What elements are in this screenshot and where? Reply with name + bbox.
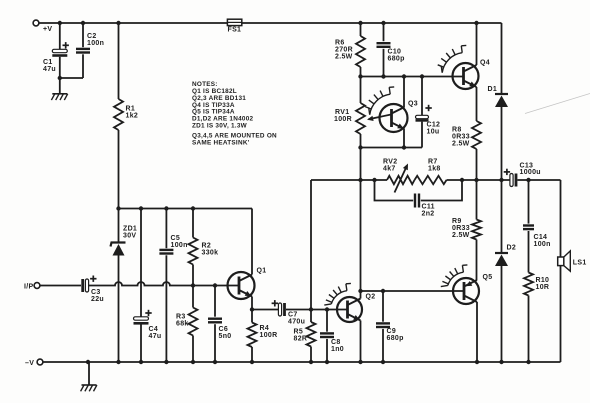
svg-text:2.5W: 2.5W bbox=[452, 141, 470, 148]
svg-text:1000u: 1000u bbox=[520, 169, 541, 176]
capacitor C12 10u bbox=[416, 77, 429, 148]
svg-text:C8: C8 bbox=[331, 339, 341, 346]
label FS1 bbox=[228, 27, 242, 34]
junction R8 bottom bbox=[474, 178, 478, 182]
transistor Q1 bbox=[228, 272, 255, 299]
resistor R4 100R bbox=[248, 310, 257, 363]
label Q1 bbox=[257, 268, 267, 275]
resistor R3 68k bbox=[189, 286, 198, 363]
resistor R2 330k bbox=[189, 209, 198, 286]
svg-text:100n: 100n bbox=[87, 40, 104, 47]
plus C13 bbox=[504, 169, 510, 175]
ground (bottom) bbox=[81, 362, 97, 391]
label C7 bbox=[288, 312, 305, 326]
junction Q3 emitter bbox=[402, 145, 406, 149]
svg-text:C14: C14 bbox=[534, 234, 548, 241]
junction Q4 collector top bbox=[474, 21, 478, 25]
heatsink mark Q3 bbox=[365, 87, 394, 115]
junction C4 bottom bbox=[139, 360, 143, 364]
junction C9 bottom bbox=[381, 360, 385, 364]
svg-text:1n0: 1n0 bbox=[331, 346, 344, 353]
capacitor C9 680p bbox=[376, 291, 390, 362]
svg-text:2.5W: 2.5W bbox=[452, 232, 470, 239]
junction R2 top bbox=[191, 206, 195, 210]
svg-text:22u: 22u bbox=[91, 296, 104, 303]
wiper arrow RV2 bbox=[395, 164, 409, 193]
wire emitter rail bbox=[361, 147, 423, 149]
resistor R5 82R bbox=[307, 310, 316, 363]
junction C10 bottom bbox=[381, 74, 385, 78]
wire Q5 collector bbox=[476, 302, 478, 362]
svg-text:1k8: 1k8 bbox=[428, 166, 441, 173]
junction C5 top bbox=[164, 206, 168, 210]
junction Q2 collector bbox=[358, 289, 362, 293]
svg-text:R9: R9 bbox=[452, 218, 462, 225]
svg-text:Q4: Q4 bbox=[480, 60, 490, 67]
label C14 bbox=[534, 234, 551, 248]
junction ground bbox=[86, 360, 90, 364]
label C12 bbox=[427, 122, 441, 136]
junction R7 right bbox=[460, 178, 464, 182]
resistor R8 0R33 2.5W bbox=[472, 121, 481, 180]
label R1 bbox=[126, 106, 139, 120]
junction C10 top bbox=[381, 21, 385, 25]
label Q4 bbox=[480, 60, 490, 67]
wire Q3 emitter bbox=[403, 129, 405, 148]
junction Q1 emitter bbox=[250, 307, 254, 311]
svg-text:100R: 100R bbox=[334, 116, 352, 123]
svg-text:270R: 270R bbox=[335, 47, 353, 54]
transistor Q5 bbox=[453, 278, 479, 304]
junction R4 bottom bbox=[250, 360, 254, 364]
label R3 bbox=[176, 314, 189, 328]
diode D1 bbox=[495, 94, 508, 180]
note text block bbox=[192, 81, 277, 147]
junction R6 top bbox=[358, 21, 362, 25]
wire output rail bbox=[311, 179, 510, 181]
wire Q2 collector to Q5 base bbox=[361, 290, 465, 292]
svg-text:C4: C4 bbox=[149, 326, 159, 333]
wire Q4 emitter bbox=[476, 87, 478, 121]
junction R3 bottom bbox=[191, 360, 195, 364]
wire speaker to rail bbox=[560, 266, 562, 362]
svg-text:LS1: LS1 bbox=[573, 259, 587, 266]
label R6 bbox=[335, 40, 353, 61]
heatsink mark Q4 bbox=[438, 45, 467, 72]
label Q2 bbox=[366, 294, 376, 301]
speaker LS1 bbox=[558, 251, 571, 271]
wire Q1 base with hops bbox=[89, 282, 240, 285]
label R9 bbox=[452, 218, 470, 239]
wire C13 to speaker bbox=[518, 179, 561, 181]
label LS1 bbox=[573, 259, 587, 266]
label C2 bbox=[87, 33, 104, 47]
svg-text:0R33: 0R33 bbox=[452, 225, 470, 232]
label ZD1 bbox=[123, 226, 137, 240]
heatsink mark Q2 bbox=[324, 283, 351, 305]
svg-text:Q1: Q1 bbox=[257, 268, 267, 275]
label C10 bbox=[388, 49, 405, 63]
svg-text:10u: 10u bbox=[427, 129, 440, 136]
resistor R6 270R 2.5W bbox=[356, 23, 365, 77]
svg-text:2n2: 2n2 bbox=[422, 211, 435, 218]
capacitor C7 470u bbox=[278, 303, 284, 316]
wire RV1 to RV2 node bbox=[360, 148, 362, 181]
wire feedback riser bbox=[310, 180, 312, 310]
label Q5 bbox=[483, 274, 493, 281]
resistor R7 1k8 bbox=[415, 176, 447, 184]
svg-text:R5: R5 bbox=[294, 329, 304, 336]
label C1 bbox=[43, 59, 56, 73]
svg-text:68k: 68k bbox=[176, 321, 189, 328]
svg-text:Q2: Q2 bbox=[366, 294, 376, 301]
label C6 bbox=[219, 326, 232, 340]
svg-text:47u: 47u bbox=[43, 66, 56, 73]
resistor R9 0R33 2.5W bbox=[472, 180, 481, 280]
svg-text:R4: R4 bbox=[260, 325, 270, 332]
capacitor C5 100n bbox=[159, 209, 173, 363]
transistor Q3 bbox=[380, 104, 408, 132]
svg-text:100n: 100n bbox=[534, 241, 551, 248]
wire Q3 base arrow bbox=[367, 115, 391, 122]
node bias rail bbox=[119, 208, 253, 210]
terminal -V bbox=[37, 359, 43, 365]
svg-text:1k2: 1k2 bbox=[126, 113, 139, 120]
label Q3 bbox=[408, 101, 418, 108]
capacitor C4 47u bbox=[134, 209, 149, 363]
wire C7 to Q2 base bbox=[286, 309, 348, 311]
svg-text:330k: 330k bbox=[202, 250, 219, 257]
junction R10 bottom bbox=[526, 360, 530, 364]
plus C7 bbox=[272, 300, 278, 306]
junction feedback node bbox=[309, 307, 313, 311]
svg-text:–V: –V bbox=[25, 360, 34, 367]
svg-text:47u: 47u bbox=[149, 333, 162, 340]
junction C4 top bbox=[139, 206, 143, 210]
capacitor C13 1000u bbox=[510, 174, 516, 187]
label D1 bbox=[488, 86, 498, 93]
capacitor C1 bbox=[52, 23, 67, 78]
potentiometer RV1 100R bbox=[356, 77, 365, 148]
wire Q2 emitter bbox=[360, 321, 362, 363]
terminal I/P bbox=[34, 283, 40, 289]
junction R5 bottom bbox=[309, 360, 313, 364]
junction C12 top bbox=[420, 74, 424, 78]
plus C4 bbox=[145, 310, 151, 316]
label C4 bbox=[149, 326, 162, 340]
svg-text:680p: 680p bbox=[387, 335, 404, 342]
svg-text:R6: R6 bbox=[335, 40, 345, 47]
junction Q5 collector bottom bbox=[475, 360, 479, 364]
wire top rail corner to D1 bbox=[501, 23, 503, 94]
svg-text:C2: C2 bbox=[87, 33, 97, 40]
wire Q3 base rail bbox=[361, 76, 465, 78]
svg-text:RV1: RV1 bbox=[335, 109, 349, 116]
svg-text:R10: R10 bbox=[536, 277, 550, 284]
label R8 bbox=[452, 127, 470, 148]
transistor Q4 bbox=[453, 63, 479, 89]
junction R1 top bbox=[116, 21, 120, 25]
heatsink mark Q5 bbox=[441, 265, 468, 287]
capacitor C6 5n0 bbox=[208, 286, 222, 363]
label R5 bbox=[294, 329, 308, 343]
svg-text:D2: D2 bbox=[507, 245, 517, 252]
junction C1 bottom bbox=[58, 76, 62, 80]
capacitor C3 22u bbox=[83, 279, 89, 292]
label RV1 bbox=[334, 109, 352, 123]
fuse FS1 bbox=[227, 19, 241, 25]
junction ZD1 bottom bbox=[116, 360, 120, 364]
capacitor C14 100n bbox=[523, 180, 534, 273]
svg-text:R2: R2 bbox=[202, 243, 212, 250]
junction R2-R3 bbox=[191, 283, 195, 287]
svg-text:Q5: Q5 bbox=[483, 274, 493, 281]
label C5 bbox=[171, 235, 188, 249]
label C13 bbox=[520, 162, 541, 176]
svg-text:R1: R1 bbox=[126, 106, 136, 113]
junction C5 bottom bbox=[164, 360, 168, 364]
svg-text:4k7: 4k7 bbox=[383, 166, 396, 173]
svg-text:10R: 10R bbox=[536, 284, 550, 291]
diode D2 bbox=[495, 253, 508, 362]
svg-text:0R33: 0R33 bbox=[452, 134, 470, 141]
wire Q2 collector bbox=[360, 291, 362, 299]
junction D2 bottom bbox=[499, 360, 503, 364]
resistor R10 10R bbox=[524, 273, 533, 363]
wire Q1 emitter bbox=[251, 297, 253, 310]
plus C1 bbox=[63, 42, 69, 48]
svg-text:C12: C12 bbox=[427, 122, 441, 129]
junction C9 top bbox=[381, 289, 385, 293]
label D2 bbox=[507, 245, 517, 252]
plus C12 bbox=[425, 105, 431, 111]
junction C8 bottom bbox=[325, 360, 329, 364]
svg-text:100R: 100R bbox=[260, 332, 278, 339]
svg-text:C9: C9 bbox=[387, 328, 397, 335]
svg-text:C10: C10 bbox=[388, 49, 402, 56]
junction Q3 collector bbox=[402, 74, 406, 78]
scan artifact line bbox=[525, 94, 590, 114]
junction Q2 emitter bottom bbox=[358, 360, 362, 364]
capacitor C8 1n0 bbox=[320, 310, 334, 363]
svg-text:R3: R3 bbox=[176, 314, 186, 321]
svg-text:+V: +V bbox=[43, 26, 52, 33]
label RV2 bbox=[383, 159, 397, 173]
svg-text:SAME HEATSINK': SAME HEATSINK' bbox=[192, 140, 250, 147]
svg-text:Q3: Q3 bbox=[408, 101, 418, 108]
resistor R1 1k2 bbox=[114, 23, 123, 209]
wire input bbox=[40, 285, 81, 287]
wire speaker drop bbox=[560, 180, 562, 257]
capacitor C10 680p bbox=[377, 23, 391, 77]
potentiometer RV2 4k7 bbox=[387, 176, 415, 184]
svg-text:100n: 100n bbox=[171, 242, 188, 249]
label C8 bbox=[331, 339, 344, 353]
terminal +V bbox=[33, 20, 39, 26]
junction RV1 bottom bbox=[358, 145, 362, 149]
junction bias-R1 bbox=[116, 206, 120, 210]
svg-text:ZD1: ZD1 bbox=[123, 226, 137, 233]
svg-text:ZD1 IS 30V, 1.3W: ZD1 IS 30V, 1.3W bbox=[192, 123, 248, 130]
svg-text:FS1: FS1 bbox=[228, 27, 242, 34]
svg-text:C5: C5 bbox=[171, 235, 181, 242]
capacitor C11 2n2 loop bbox=[375, 180, 463, 208]
junction RV2 left bbox=[372, 178, 376, 182]
wire Q3 collector bbox=[403, 77, 405, 108]
svg-text:2.5W: 2.5W bbox=[335, 54, 353, 61]
junction C6 bottom bbox=[213, 360, 217, 364]
wire -V bottom rail bbox=[43, 361, 560, 363]
svg-text:I/P: I/P bbox=[24, 283, 33, 290]
junction C2 top bbox=[81, 21, 85, 25]
svg-text:5n0: 5n0 bbox=[219, 333, 232, 340]
label C11 bbox=[422, 204, 435, 218]
label R4 bbox=[260, 325, 278, 339]
svg-text:30V: 30V bbox=[123, 233, 136, 240]
svg-text:R8: R8 bbox=[452, 127, 462, 134]
svg-text:C1: C1 bbox=[43, 59, 53, 66]
wire Q1 emitter to C7 bbox=[252, 309, 278, 311]
wire Q1 collector bbox=[251, 209, 253, 275]
junction C1 top bbox=[58, 21, 62, 25]
label I/P bbox=[24, 283, 33, 290]
junction output node bbox=[499, 178, 503, 182]
junction C14 top bbox=[526, 178, 530, 182]
junction C6 top bbox=[213, 283, 217, 287]
svg-text:680p: 680p bbox=[388, 56, 405, 63]
svg-text:470u: 470u bbox=[288, 318, 305, 325]
junction C8 top bbox=[325, 307, 329, 311]
svg-text:C11: C11 bbox=[422, 204, 435, 211]
plus C3 bbox=[90, 276, 96, 282]
svg-text:Q3,4,5 ARE MOUNTED ON: Q3,4,5 ARE MOUNTED ON bbox=[192, 133, 277, 140]
wire Q4 collector bbox=[476, 23, 478, 65]
junction R6 bottom bbox=[358, 74, 362, 78]
wire +V top supply rail bbox=[39, 22, 501, 24]
label -V bbox=[25, 360, 34, 367]
label R10 bbox=[536, 277, 550, 291]
junction column-output rail bbox=[358, 178, 362, 182]
capacitor C2 bbox=[60, 23, 90, 78]
svg-text:D1: D1 bbox=[488, 86, 498, 93]
transistor Q2 bbox=[337, 297, 362, 322]
wire D2 top bbox=[501, 180, 503, 253]
label R7 bbox=[428, 159, 441, 173]
zener diode ZD1 bbox=[111, 209, 126, 363]
ground (top left) bbox=[51, 78, 67, 100]
svg-text:82R: 82R bbox=[294, 336, 308, 343]
svg-text:C6: C6 bbox=[219, 326, 229, 333]
label C9 bbox=[387, 328, 404, 342]
label +V bbox=[43, 26, 52, 33]
wire column to Q2 collector bbox=[360, 180, 362, 291]
label C3 bbox=[91, 289, 104, 303]
label R2 bbox=[202, 243, 219, 257]
